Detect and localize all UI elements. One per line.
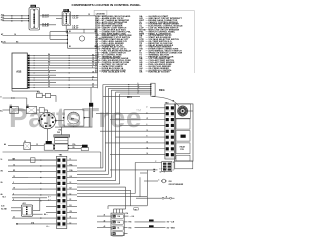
svg-text:MGTB: MGTB (139, 29, 146, 31)
svg-text:PNL: PNL (139, 31, 144, 33)
svg-text:OIL TEMP SWITCH N.O.: OIL TEMP SWITCH N.O. (148, 41, 172, 43)
svg-text:RHM: RHM (139, 33, 144, 35)
svg-text:12: 12 (88, 14, 90, 16)
svg-text:LOW OIL PRESSURE SWITCH: LOW OIL PRESSURE SWITCH (148, 28, 178, 30)
svg-text:SPEED OR SWITCH CONNECTOR: SPEED OR SWITCH CONNECTOR (148, 52, 182, 54)
svg-text:IG: IG (139, 22, 142, 24)
svg-text:STR: STR (139, 39, 144, 41)
svg-text:RESISTOR 10 OHM 10W: RESISTOR 10 OHM 10W (148, 43, 172, 45)
svg-text:W: W (139, 51, 141, 53)
svg-text:LOP: LOP (139, 28, 144, 30)
svg-text:GFI: GFI (139, 18, 143, 20)
svg-text:F05: F05 (57, 132, 60, 134)
svg-text:OIL PRESS SENDER: OIL PRESS SENDER (148, 68, 169, 70)
svg-text:VR: VR (95, 58, 98, 60)
svg-text:FUEL LEVEL SENDER: FUEL LEVEL SENDER (102, 43, 125, 45)
svg-text:COMPONENTS LOCATED IN CONTROL: COMPONENTS LOCATED IN CONTROL PANEL. (72, 3, 142, 7)
svg-text:ENGINE GROUND STUD: ENGINE GROUND STUD (102, 70, 127, 72)
svg-text:CONNECTOR CONTROL PNL: CONNECTOR CONTROL PNL (102, 31, 132, 33)
svg-text:DC CONTROL FUSE: DC CONTROL FUSE (102, 54, 123, 56)
svg-text:BM1: BM1 (44, 123, 48, 125)
svg-text:ELECTRONIC CONTROL MODULE: ELECTRONIC CONTROL MODULE (148, 26, 183, 28)
svg-text:LEGEND: LEGEND (96, 13, 106, 15)
svg-text:HOURMETER 12V DC: HOURMETER 12V DC (102, 45, 124, 47)
svg-text:CONTROL MONITOR CONN: CONTROL MONITOR CONN (102, 62, 130, 64)
svg-text:GH: GH (139, 68, 143, 70)
svg-text:GLOWPLUG CONTROL: GLOWPLUG CONTROL (148, 70, 172, 72)
svg-text:C2-B–D7: C2-B–D7 (42, 26, 49, 28)
svg-text:HM: HM (98, 38, 102, 40)
svg-text:HWT: HWT (139, 20, 144, 22)
svg-text:C-5–D7: C-5–D7 (72, 16, 78, 18)
svg-text:VM: VM (139, 49, 142, 51)
svg-text:GK: GK (139, 72, 143, 74)
svg-text:SW: SW (95, 52, 98, 54)
svg-text:SYN: SYN (139, 41, 144, 43)
svg-text:GLOW PLUG SENDER: GLOW PLUG SENDER (148, 66, 171, 68)
svg-text:W01: W01 (127, 97, 132, 99)
svg-text:GD: GD (139, 62, 143, 64)
svg-text:C2-5–D7: C2-5–D7 (42, 15, 49, 17)
svg-text:GC: GC (139, 60, 143, 62)
svg-text:FUEL SOLENOID FUSE: FUEL SOLENOID FUSE (148, 64, 172, 66)
svg-text:FUEL SOLENOID PULL FUSE: FUEL SOLENOID PULL FUSE (102, 60, 132, 62)
svg-text:GB: GB (139, 58, 143, 60)
svg-text:TR: TR (139, 43, 142, 45)
svg-text:C-6–D7: C-6–D7 (72, 18, 78, 20)
svg-text:EMERGENCY STOP SWITCH: EMERGENCY STOP SWITCH (102, 37, 131, 39)
svg-text:C2-6–D7: C2-6–D7 (42, 17, 49, 19)
